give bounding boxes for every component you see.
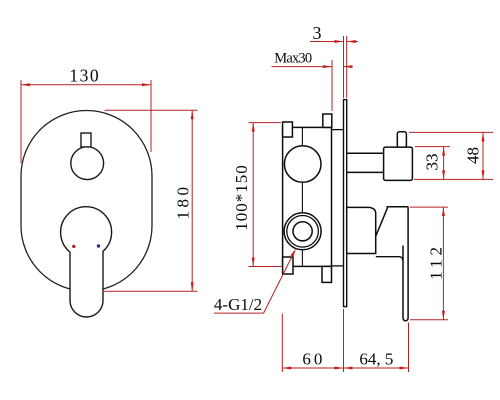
dim 60/64,5 extension line middle: [343, 309, 345, 372]
centre line segment middle: [301, 182, 303, 212]
arrow 60 left: [282, 367, 291, 370]
red arrowheads: [21, 40, 485, 370]
lower port middle circle: [287, 216, 319, 248]
centre line segment lower: [301, 250, 303, 266]
lower port inner circle (G1/2 thread): [293, 222, 312, 241]
diverter knob circle: [71, 147, 104, 180]
arrow 60 right: [335, 367, 344, 370]
diverter knob stem (small rectangle): [81, 133, 91, 147]
svg-text:100*150: 100*150: [232, 164, 251, 231]
bottom-right lug: [322, 266, 332, 282]
diverter knob tip (side view): [397, 132, 406, 148]
arrow 100*150 bottom: [252, 258, 255, 267]
dim 60/64,5 line: [282, 367, 408, 369]
arrow Max30 right (outside): [344, 65, 353, 68]
top-right lug: [323, 114, 332, 127]
dim 112 line: [442, 207, 444, 320]
dim 33 line: [443, 147, 445, 180]
dim 130 line: [21, 84, 151, 86]
dim 48 line: [482, 132, 484, 179]
cold blue dot: [97, 244, 100, 247]
cartridge cylinder (side view): [347, 207, 376, 253]
top-left lug: [283, 122, 293, 137]
dim 130 extension line left: [20, 80, 22, 163]
leader line (4-G1/2): [264, 252, 295, 314]
lower port outer circle: [284, 213, 321, 250]
dim 100*150 extension line bottom: [249, 266, 282, 268]
arrow 130 right: [142, 83, 151, 86]
centre line segment upper: [301, 127, 303, 146]
svg-text:33: 33: [423, 154, 442, 171]
dim 100*150 extension line top: [249, 122, 282, 124]
arrow 3 left (outside): [335, 40, 344, 43]
connector line top (body to wall plate): [332, 129, 344, 131]
diverter knob body (side view): [384, 147, 413, 180]
dim Max30 line segments: [272, 66, 333, 68]
dim 100*150 line: [252, 123, 254, 267]
dim 130 extension line right: [150, 80, 152, 152]
arrow 180 bottom: [191, 282, 194, 291]
dim 3 extension lines: [343, 36, 345, 98]
arrow 64,5 left: [344, 367, 353, 370]
bottom-left lug: [283, 257, 293, 274]
wall plate (thin vertical rectangle): [344, 100, 347, 307]
arrow 48 top: [482, 132, 485, 141]
arrow 48 bottom: [482, 170, 485, 179]
arrow 130 left: [21, 83, 30, 86]
lever handle (head circle + stem, front view): [61, 207, 112, 317]
dim 60/64,5 extension line right: [408, 323, 410, 373]
svg-text:4-G1/2: 4-G1/2: [214, 295, 262, 314]
arrow Max30 left (outside): [323, 65, 332, 68]
svg-text:180: 180: [174, 184, 193, 220]
svg-text:112: 112: [427, 243, 446, 280]
dim 33 extension line top: [415, 146, 450, 148]
arrow 33 top: [442, 147, 445, 156]
leader underline (4-G1/2): [214, 312, 264, 314]
dim 112 extension line top: [410, 206, 448, 208]
arrow 112 top: [442, 207, 445, 216]
dim 3 line segments: [310, 41, 344, 43]
leader arrow (4-G1/2): [290, 249, 296, 257]
arrow 33 bottom: [442, 170, 445, 179]
dim Max30 extension line: [331, 60, 333, 111]
svg-text:64, 5: 64, 5: [359, 349, 393, 368]
upper port circle: [284, 146, 321, 183]
dim 180 extension line top: [105, 109, 198, 111]
dim 60/64,5 extension line left: [281, 314, 283, 373]
diverter stem side view (two horizontal lines): [347, 152, 384, 154]
hot red dot: [72, 245, 75, 248]
valve body rectangle: [283, 127, 332, 266]
lever neck diagonal edge: [376, 208, 388, 237]
front plate (stadium outline): [21, 111, 152, 292]
svg-text:130: 130: [69, 65, 100, 85]
arrow 64,5 right: [400, 367, 409, 370]
arrow 112 bottom: [442, 311, 445, 320]
svg-text:Max30: Max30: [274, 51, 312, 67]
dim 112 extension line bottom: [410, 319, 448, 321]
arrow 100*150 top: [252, 123, 255, 132]
shared extension line bottom (33/48): [414, 178, 493, 180]
svg-text:3: 3: [313, 23, 322, 43]
arrow 180 top: [191, 110, 194, 119]
connector line bottom (body to wall plate): [332, 265, 344, 267]
dim 180 line: [191, 110, 193, 291]
dim 180 extension line bottom: [103, 290, 198, 292]
svg-text:60: 60: [302, 349, 325, 368]
svg-text:48: 48: [463, 147, 482, 164]
arrow 3 right (outside): [347, 40, 356, 43]
lever blade (side view outline): [387, 207, 409, 321]
lever neck underside: [376, 257, 403, 261]
dim 48 extension line top: [409, 131, 493, 133]
